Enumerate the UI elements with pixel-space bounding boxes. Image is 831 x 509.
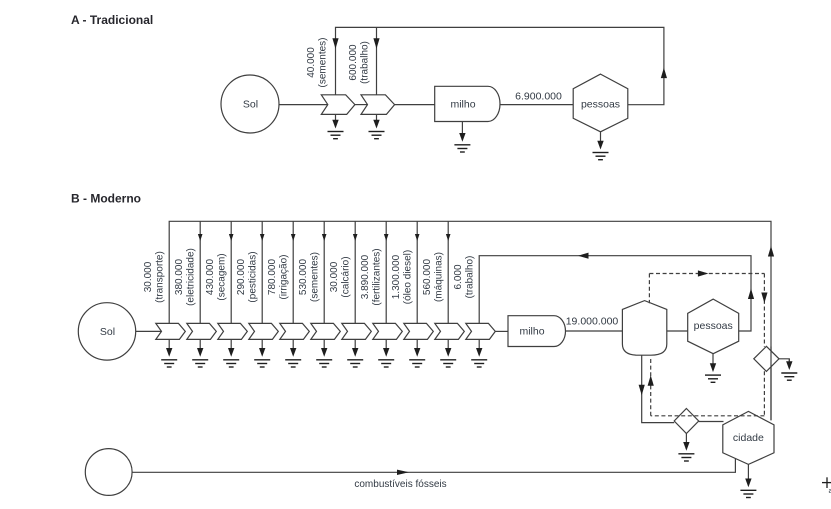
svg-text:30.000: 30.000	[143, 261, 154, 292]
producer tank milho A	[435, 86, 500, 121]
svg-text:milho: milho	[450, 99, 475, 111]
page artifact plus mark	[822, 477, 831, 495]
storage tank (estoque)	[622, 301, 666, 356]
svg-text:30.000: 30.000	[329, 261, 340, 292]
wire cidade riser over right diamond	[770, 347, 772, 421]
arrowhead down into interaction B10	[446, 234, 451, 241]
source Sol B (circle)	[78, 303, 135, 360]
interaction arrow B7 (calcário)	[342, 323, 372, 339]
ground (right diamond)	[781, 359, 797, 380]
ground (below interaction B9)	[409, 339, 425, 367]
arrowhead down on storage outflow	[639, 385, 645, 396]
svg-text:560.000: 560.000	[422, 258, 433, 295]
ground (below interaction B4)	[254, 339, 270, 367]
consumer pessoas B pessoas	[688, 299, 739, 354]
svg-text:(óleo diesel): (óleo diesel)	[403, 250, 414, 304]
interaction arrow B3 (secagem)	[218, 323, 248, 339]
svg-text:Sol: Sol	[100, 326, 115, 338]
svg-text:1.300.000: 1.300.000	[391, 254, 402, 299]
arrowhead left on trabalho feedback	[578, 253, 589, 259]
svg-text:600.000: 600.000	[348, 44, 359, 81]
wire bus B down to interaction B9	[416, 221, 418, 323]
ground (below interaction B3)	[223, 339, 239, 367]
wire bus B down to interaction B10	[447, 221, 449, 323]
wire Sol A to interaction A1	[279, 104, 328, 106]
wire bus B down to interaction B3	[230, 221, 232, 323]
interaction arrow B10 (máquinas)	[435, 323, 465, 339]
ground (below interaction A2)	[369, 114, 385, 138]
consumer pessoas A pessoas	[573, 74, 628, 132]
flow label 6.000 (trabalho)	[453, 256, 476, 299]
svg-text:290.000: 290.000	[236, 258, 247, 295]
wire A2 to milho A	[395, 104, 435, 106]
dashed right edge lower	[763, 371, 765, 416]
flow label 3.890.000 (fertilizantes)	[360, 248, 383, 305]
flow label 780.000 (irrigação)	[267, 254, 290, 299]
svg-text:(fertilizantes): (fertilizantes)	[372, 248, 383, 305]
flow label 530.000 (sementes)	[298, 252, 321, 302]
svg-text:milho: milho	[519, 326, 544, 338]
interaction arrow B6 (sementes)	[311, 323, 341, 339]
arrowhead down into interaction B3	[229, 234, 234, 241]
svg-text:(transporte): (transporte)	[155, 251, 166, 303]
dashed left edge lower (to storage bottom)	[650, 357, 652, 416]
arrowhead down into interaction B7	[353, 234, 358, 241]
wire fossil fuels to cidade	[132, 458, 735, 472]
ground (below interaction B7)	[347, 339, 363, 367]
arrowhead down into interaction B2	[198, 234, 203, 241]
arrowhead down into A1	[332, 38, 338, 49]
svg-text:(secagem): (secagem)	[217, 253, 228, 300]
wire bus B down to interaction B7	[354, 221, 356, 323]
dashed right edge upper	[763, 274, 765, 347]
svg-text:pessoas: pessoas	[694, 320, 733, 332]
svg-text:(eletricidade): (eletricidade)	[186, 248, 197, 306]
feedback wire pessoas B to trabalho interaction	[479, 256, 751, 331]
wire bus B down to interaction B2	[199, 221, 201, 323]
interaction arrow B5 (irrigação)	[280, 323, 310, 339]
wire bus B down to interaction B8	[385, 221, 387, 323]
dashed bottom edge	[651, 415, 765, 417]
arrowhead up on pessoas riser	[748, 289, 754, 300]
arrowhead up on dashed left lower edge	[648, 375, 654, 386]
svg-text:combustíveis fósseis: combustíveis fósseis	[354, 479, 446, 490]
arrowhead down into interaction B9	[415, 234, 420, 241]
ground (below cidade)	[740, 464, 756, 497]
wire storage down to transaction diamond	[642, 355, 675, 422]
feedback wire pessoas A to interactions (top bus A)	[336, 27, 664, 104]
wire milho B to storage	[566, 330, 623, 332]
svg-text:430.000: 430.000	[205, 258, 216, 295]
flow label 1.300.000 (óleo diesel)	[391, 250, 414, 304]
interaction arrow B2 (eletricidade)	[187, 323, 217, 339]
ground (below lower transaction diamond)	[678, 434, 694, 462]
svg-text:380.000: 380.000	[174, 258, 185, 295]
interaction arrow B9 (óleo diesel)	[404, 323, 434, 339]
svg-text:(calcário): (calcário)	[341, 256, 352, 297]
wire diamond to cidade	[699, 421, 724, 423]
svg-text:3.890.000: 3.890.000	[360, 254, 371, 299]
arrowhead down into interaction B5	[291, 234, 296, 241]
svg-text:6.000: 6.000	[453, 264, 464, 289]
ground (below interaction B11)	[471, 339, 487, 367]
source circle (combustiveis fosseis)	[85, 449, 132, 496]
svg-text:(máquinas): (máquinas)	[434, 252, 445, 302]
transaction diamond (lower left)	[674, 409, 699, 434]
flow label 30.000 (transporte)	[143, 251, 166, 303]
dashed left edge upper (to storage top)	[648, 274, 650, 304]
source Sol A (circle)	[221, 75, 279, 133]
svg-text:(pesticidas): (pesticidas)	[248, 251, 259, 302]
wire Sol B to interaction row	[136, 330, 162, 332]
wire bus A down to interaction A2	[376, 27, 378, 94]
svg-text:Sol: Sol	[243, 99, 258, 111]
flow label 290.000 (pesticidas)	[236, 251, 259, 302]
interaction arrow B11 (trabalho)	[466, 323, 496, 339]
svg-text:(trabalho): (trabalho)	[360, 41, 371, 84]
wire A1 to A2	[355, 104, 368, 106]
svg-text:780.000: 780.000	[267, 258, 278, 295]
svg-text:6.900.000: 6.900.000	[515, 91, 562, 103]
arrowhead up on cidade riser	[768, 246, 774, 257]
ground (below interaction A1)	[328, 114, 344, 138]
arrowhead down into interaction B6	[322, 234, 327, 241]
dashed top edge	[649, 273, 764, 275]
svg-text:cidade: cidade	[733, 432, 764, 444]
ground (below milho A)	[454, 122, 470, 153]
wire bus B down to interaction B4	[261, 221, 263, 323]
ground (below pessoas A)	[593, 132, 609, 160]
arrowhead up on feedback riser A	[661, 68, 667, 79]
wire bus B down to interaction B6	[323, 221, 325, 323]
flow label 600.000 (trabalho)	[348, 41, 371, 84]
svg-text:(sementes): (sementes)	[318, 37, 329, 87]
wire right diamond to ground	[779, 359, 789, 361]
svg-text:A - Tradicional: A - Tradicional	[71, 13, 153, 27]
arrowhead down into A2	[373, 38, 379, 49]
wire milho A to pessoas A	[500, 104, 574, 106]
flow label 30.000 (calcário)	[329, 256, 352, 297]
interaction arrow B8 (fertilizantes)	[373, 323, 403, 339]
interaction arrow B4 (pesticidas)	[249, 323, 278, 339]
ground (below pessoas B)	[705, 354, 721, 383]
svg-text:(trabalho): (trabalho)	[465, 256, 476, 299]
interaction arrow A2 (trabalho)	[361, 95, 395, 115]
ground (below interaction B6)	[316, 339, 332, 367]
consumer cidade cidade	[723, 411, 774, 464]
wire storage to pessoas B	[667, 330, 688, 332]
svg-text:B - Moderno: B - Moderno	[71, 192, 141, 206]
arrowhead down into interaction B4	[260, 234, 265, 241]
transaction diamond (right)	[754, 346, 779, 371]
flow label 380.000 (eletricidade)	[174, 248, 197, 306]
ground (below interaction B8)	[378, 339, 394, 367]
ground (below interaction B5)	[285, 339, 301, 367]
wire bus B down to interaction B5	[292, 221, 294, 323]
svg-text:40.000: 40.000	[306, 47, 317, 78]
interaction arrow A1 (sementes)	[321, 95, 355, 115]
flow label 430.000 (secagem)	[205, 253, 228, 300]
svg-text:19.000.000: 19.000.000	[566, 316, 619, 328]
ground (below interaction B10)	[440, 339, 456, 367]
flow label 40.000 (sementes)	[306, 37, 329, 87]
producer tank milho B	[508, 316, 565, 347]
svg-text:pessoas: pessoas	[581, 98, 620, 110]
arrowhead right on fossil wire	[397, 470, 409, 475]
arrowhead down on dashed right edge	[761, 293, 767, 304]
arrowhead down into interaction B8	[384, 234, 389, 241]
interaction arrow B1 (transporte)	[156, 323, 186, 339]
ground (below interaction B1)	[161, 339, 177, 367]
svg-text:(irrigação): (irrigação)	[279, 254, 290, 299]
ground (below interaction B2)	[192, 339, 208, 367]
flow label 560.000 (máquinas)	[422, 252, 445, 302]
svg-text:530.000: 530.000	[298, 258, 309, 295]
wire interaction row to milho B	[495, 330, 508, 332]
svg-text:(sementes): (sementes)	[310, 252, 321, 302]
feedback bus B (cidade to interactions)	[169, 221, 771, 420]
